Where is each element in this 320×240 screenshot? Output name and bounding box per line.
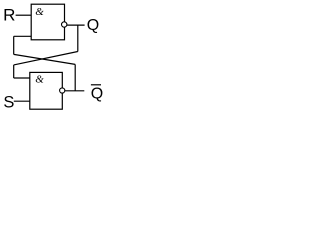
wire U1 output to Q: [67, 24, 85, 26]
svg-text:R: R: [3, 6, 15, 25]
wire vertical left lower: [13, 65, 15, 78]
wire U1 second input (feedback): [14, 35, 32, 37]
svg-text:Q: Q: [87, 17, 99, 34]
overline of Qbar: [91, 84, 101, 86]
wire diagonal A (U1 input2 to Qbar): [14, 54, 75, 64]
svg-text:Q: Q: [91, 85, 103, 102]
inversion bubble U1 output: [61, 22, 66, 27]
wire U2 first input (feedback from Q): [14, 77, 30, 79]
wire diagonal B (Q tap to U2 input): [14, 52, 78, 65]
svg-text:S: S: [3, 93, 14, 111]
inversion bubble U2 output: [60, 88, 65, 93]
wire U2 output to Qbar: [65, 90, 85, 92]
nand gate U1 body: [31, 4, 64, 40]
wire Q tap vertical: [77, 25, 79, 51]
wire vertical down to Qbar wire: [74, 64, 76, 90]
wire vertical left upper: [13, 36, 15, 54]
wire R to gate U1: [16, 14, 32, 16]
svg-text:&: &: [35, 74, 44, 86]
wire S to gate U2: [14, 100, 30, 102]
svg-text:&: &: [35, 6, 44, 18]
nand gate U2 body: [30, 72, 63, 109]
